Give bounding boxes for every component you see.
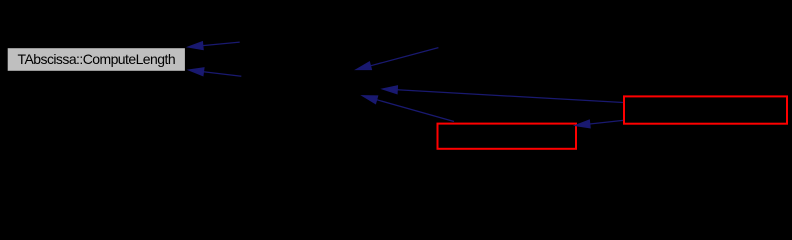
svg-text:TAbscissa::ComputeLength: TAbscissa::ComputeLength	[18, 51, 176, 67]
